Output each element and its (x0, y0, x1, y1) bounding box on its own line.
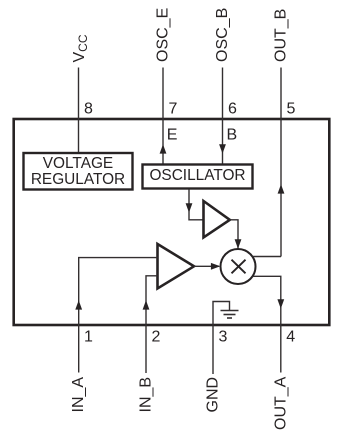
pin 7 OSC_E wire (162, 68, 164, 164)
svg-text:1: 1 (84, 329, 93, 346)
pin 2 IN_B wire inside (146, 276, 158, 326)
pin 3 GND wire inside (213, 302, 230, 327)
pin 5 OUT_B wire (280, 68, 282, 257)
arrow up on pin1 wire (75, 300, 82, 309)
svg-text:GND: GND (205, 377, 222, 413)
svg-text:E: E (167, 127, 178, 144)
wire mixer lower output to pin4 (253, 276, 281, 326)
mixer X (232, 260, 246, 274)
voltage regulator block U-VR (24, 153, 133, 190)
wire mixer upper output to pin5 (253, 256, 281, 258)
input amp triangle (158, 244, 195, 289)
svg-text:5: 5 (287, 101, 296, 118)
pin 1 outside stub (78, 326, 80, 373)
pin 1 IN_A wire inside (79, 258, 158, 326)
mixer circle (221, 249, 256, 284)
pin 8 VCC wire (78, 68, 80, 153)
arrow up on pin5 wire (278, 184, 285, 193)
svg-text:VOLTAGE: VOLTAGE (43, 155, 113, 172)
ground symbol bars (221, 310, 239, 312)
svg-text:7: 7 (169, 101, 178, 118)
svg-text:6: 6 (228, 101, 237, 118)
svg-text:OSCILLATOR: OSCILLATOR (149, 167, 245, 184)
pin 6 OSC_B wire (222, 68, 224, 164)
wire amp output to mixer left (194, 265, 219, 267)
svg-text:REGULATOR: REGULATOR (31, 171, 125, 188)
svg-text:OSC_B: OSC_B (214, 8, 231, 62)
oscillator block (143, 165, 253, 189)
arrow up on pin2 wire (143, 300, 150, 309)
outer IC body box (14, 119, 330, 325)
pin 3 outside stub (212, 326, 214, 374)
svg-text:2: 2 (152, 329, 161, 346)
svg-text:IN_A: IN_A (70, 377, 87, 413)
pin 4 outside stub (280, 326, 282, 373)
svg-text:8: 8 (84, 101, 93, 118)
arrow down into mixer top (235, 239, 242, 248)
arrow down on pin4 wire (277, 299, 284, 308)
wire oscillator output down (189, 189, 203, 220)
arrow right into mixer left (211, 263, 220, 270)
svg-text:OUT_A: OUT_A (272, 376, 289, 430)
arrow down on pin6 wire (base in) (219, 144, 226, 153)
wire buffer output to mixer top (230, 220, 239, 249)
svg-text:4: 4 (286, 329, 295, 346)
arrow down on oscillator output wire (186, 203, 193, 212)
arrow up on pin7 wire (emitter out) (160, 144, 167, 153)
buffer amp triangle (oscillator) (204, 201, 230, 237)
svg-text:B: B (227, 127, 238, 144)
svg-text:OSC_E: OSC_E (155, 8, 172, 62)
svg-text:3: 3 (219, 329, 228, 346)
pin 2 outside stub (145, 326, 147, 373)
svg-text:OUT_B: OUT_B (273, 9, 290, 62)
svg-text:IN_B: IN_B (138, 377, 155, 413)
